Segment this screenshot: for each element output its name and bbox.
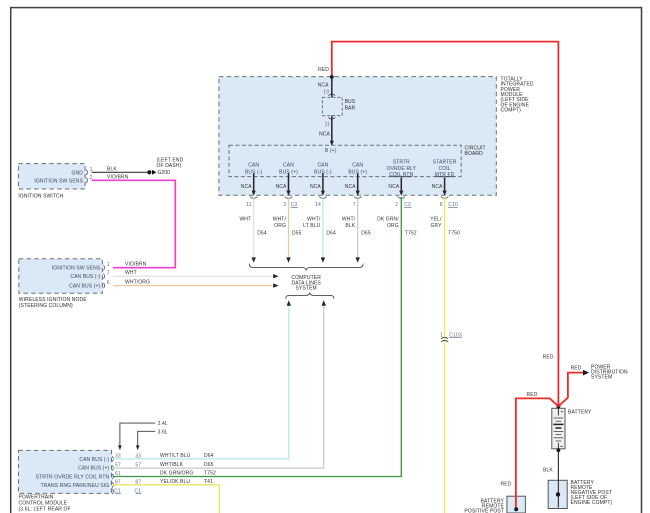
node: POWER DISTRIBUTION SYSTEM <box>591 364 628 380</box>
svg-text:YEL/DK BLU: YEL/DK BLU <box>160 479 190 485</box>
PCM name label <box>19 494 71 512</box>
svg-text:NCA: NCA <box>276 184 287 190</box>
wire DK GRN/ORG T752 labels at PCM <box>160 471 216 477</box>
svg-text:(3.6L: LEFT REAR OF: (3.6L: LEFT REAR OF <box>19 506 71 512</box>
svg-text:IGNITION SWITCH: IGNITION SWITCH <box>18 194 63 200</box>
TIPM pin STARTER COIL MTR FD col6 <box>432 159 458 208</box>
svg-text:WHT/ORG: WHT/ORG <box>125 280 150 286</box>
wire WHT/ORG WIN CAN BUS (+) to computer data lines <box>113 280 279 288</box>
wire WHT WIN CAN BUS (-) to computer data lines <box>113 270 279 278</box>
svg-text:YEL/: YEL/ <box>430 216 442 222</box>
svg-text:11: 11 <box>246 202 252 208</box>
brace: computer data lines (wires from TIPM) <box>249 264 363 271</box>
2.4L pin pointer <box>118 421 168 450</box>
svg-text:GRY: GRY <box>430 223 442 229</box>
svg-text:WHT: WHT <box>125 270 137 276</box>
svg-text:COIL: COIL <box>439 166 451 172</box>
svg-text:T41: T41 <box>204 479 213 485</box>
svg-text:BOARD: BOARD <box>465 151 484 157</box>
svg-text:SYSTEM: SYSTEM <box>591 375 612 381</box>
wire WHT/LT BLU D64 PCM pin33 to computer data lines <box>113 300 291 459</box>
ground G200 (left end of dash) <box>147 157 183 176</box>
wire NCA from junction to bus bar pin 19 <box>318 77 336 97</box>
svg-text:BAR: BAR <box>345 105 356 111</box>
TIPM pin CAN BUS (-) col1 <box>241 163 263 209</box>
svg-text:DK GRN/ORG: DK GRN/ORG <box>160 471 193 477</box>
svg-text:STARTER: STARTER <box>433 159 457 165</box>
connector C103 on YEL/GRY wire <box>440 332 462 342</box>
PCM pin numbers <box>114 453 141 494</box>
svg-text:NCA: NCA <box>432 184 443 190</box>
module U1 TIPM (Totally Integrated Power Module) <box>219 77 496 196</box>
svg-text:CAN BUS (-): CAN BUS (-) <box>79 457 109 463</box>
svg-text:CAN BUS (+): CAN BUS (+) <box>69 283 100 289</box>
svg-text:NCA: NCA <box>310 184 321 190</box>
TIPM pin CAN BUS (+) col4 <box>345 163 368 209</box>
svg-text:POSITIVE POST: POSITIVE POST <box>464 509 504 513</box>
svg-text:B (+): B (+) <box>325 148 337 154</box>
wire DK GRN/ORG T752 (TIPM pin 2 to PCM pin 61) <box>113 197 417 477</box>
wire BLK ignition switch pin1 to ground <box>92 167 148 173</box>
wire WHT/BLK D65 PCM pin57 to computer data lines <box>113 300 326 468</box>
svg-text:BATTERY: BATTERY <box>568 409 592 415</box>
svg-text:ENGINE COMPT): ENGINE COMPT) <box>571 500 613 506</box>
wire BLK battery negative to remote negative post <box>543 448 560 507</box>
svg-text:MTR FD: MTR FD <box>435 172 455 178</box>
svg-text:ORG: ORG <box>387 223 399 229</box>
svg-text:CAN: CAN <box>352 163 363 169</box>
svg-text:NCA: NCA <box>241 184 252 190</box>
svg-text:WHT/: WHT/ <box>342 216 356 222</box>
svg-text:OF DASH): OF DASH) <box>157 163 182 169</box>
svg-text:D54: D54 <box>257 230 267 236</box>
svg-text:G200: G200 <box>158 170 171 176</box>
svg-text:WHT/BLK: WHT/BLK <box>160 462 184 468</box>
module PCM powertrain control module <box>19 450 114 494</box>
wire WHT/BLK D65 (TIPM pin 7 down) <box>342 197 371 263</box>
svg-text:NCA: NCA <box>388 184 399 190</box>
svg-text:COMPT): COMPT) <box>501 108 522 114</box>
svg-text:RED: RED <box>500 482 511 488</box>
svg-text:IGNITION SW SENS: IGNITION SW SENS <box>34 179 83 185</box>
svg-text:3.6L: 3.6L <box>158 429 168 435</box>
bus bar <box>322 97 355 115</box>
circuit board (inside TIPM) <box>229 145 461 176</box>
svg-text:D65: D65 <box>361 230 371 236</box>
svg-text:WHT: WHT <box>239 216 251 222</box>
battery remote positive post <box>464 496 525 513</box>
svg-text:8: 8 <box>440 202 443 208</box>
battery remote negative post <box>548 480 612 509</box>
svg-text:WHT/: WHT/ <box>307 216 321 222</box>
svg-text:(STEERING COLUMN): (STEERING COLUMN) <box>19 303 73 309</box>
svg-text:RED: RED <box>318 67 329 73</box>
3.6L pin pointer <box>136 429 168 450</box>
wire YEL/GRY T750 (TIPM pin 8 down off page) <box>430 197 460 513</box>
svg-text:BUS: BUS <box>345 99 356 105</box>
svg-text:STRTR: STRTR <box>393 159 410 165</box>
TIPM pin CAN BUS (-) col3 <box>310 163 332 209</box>
svg-text:7: 7 <box>353 202 356 208</box>
circuit board label <box>465 146 486 157</box>
svg-text:6: 6 <box>107 280 110 286</box>
wire YEL/DK BLU T41 PCM pin87 down off page <box>113 479 219 513</box>
svg-text:T752: T752 <box>405 230 417 236</box>
svg-text:BLK: BLK <box>345 223 355 229</box>
svg-text:3: 3 <box>283 202 286 208</box>
wire WHT/ORG D55 (TIPM pin 3 down) <box>273 197 302 263</box>
svg-text:CAN BUS (-): CAN BUS (-) <box>70 274 100 280</box>
wire RED battery feed (TIPM B+ to battery) <box>318 42 558 406</box>
svg-text:D64: D64 <box>326 230 336 236</box>
svg-text:D64: D64 <box>204 453 214 459</box>
svg-text:RED: RED <box>571 365 582 371</box>
svg-text:IGNITION SW SENS: IGNITION SW SENS <box>52 266 101 272</box>
svg-text:BLK: BLK <box>107 167 117 173</box>
WIN name label <box>19 297 87 309</box>
svg-text:2: 2 <box>395 202 398 208</box>
TIPM pin CAN BUS (+) col2 <box>276 163 299 209</box>
TIPM pin STRTR OVRDE RLY COIL RTN col5 <box>386 159 416 208</box>
wire RED battery to remote positive post <box>500 392 558 511</box>
svg-text:CAN: CAN <box>248 163 259 169</box>
svg-text:D55: D55 <box>292 230 302 236</box>
svg-text:CAN BUS (+): CAN BUS (+) <box>78 466 109 472</box>
battery B1 <box>552 408 592 449</box>
svg-text:T750: T750 <box>448 230 460 236</box>
brace: computer data lines (wires from PCM) <box>286 293 334 299</box>
svg-text:TRANS RNG PARK/NEU SIG: TRANS RNG PARK/NEU SIG <box>41 483 110 489</box>
svg-text:VIO/BRN: VIO/BRN <box>107 175 129 181</box>
svg-text:NCA: NCA <box>345 184 356 190</box>
svg-text:DK GRN/: DK GRN/ <box>377 216 399 222</box>
svg-text:1: 1 <box>107 262 110 268</box>
junction dot at battery positive <box>556 404 560 408</box>
svg-text:VIO/BRN: VIO/BRN <box>125 262 147 268</box>
TIPM name label <box>501 76 534 113</box>
svg-text:CAN: CAN <box>317 163 328 169</box>
svg-text:+: + <box>560 410 563 416</box>
svg-text:61: 61 <box>115 471 121 477</box>
svg-text:BLK: BLK <box>543 467 553 473</box>
svg-text:RED: RED <box>527 392 538 398</box>
svg-text:11: 11 <box>325 121 331 127</box>
svg-text:RED: RED <box>543 354 554 360</box>
svg-text:LT BLU: LT BLU <box>303 223 320 229</box>
svg-text:WHT/: WHT/ <box>273 216 287 222</box>
node: COMPUTER DATA LINES SYSTEM <box>291 275 321 291</box>
svg-text:14: 14 <box>315 202 321 208</box>
svg-text:GND: GND <box>72 170 84 176</box>
svg-text:NCA: NCA <box>318 82 329 88</box>
svg-text:1: 1 <box>440 332 443 338</box>
module WIN wireless ignition node <box>19 259 110 294</box>
svg-text:19: 19 <box>323 89 329 95</box>
wire VIO/BRN ignition switch pin2 to WIN pin5 <box>92 175 176 268</box>
svg-text:2.4L: 2.4L <box>158 421 168 427</box>
svg-text:WHT/LT BLU: WHT/LT BLU <box>160 453 191 459</box>
svg-text:CAN: CAN <box>283 163 294 169</box>
junction at TIPM B(+) input <box>330 75 334 79</box>
svg-text:COIL RTN: COIL RTN <box>389 172 413 178</box>
svg-text:D65: D65 <box>204 462 214 468</box>
svg-text:T752: T752 <box>204 471 216 477</box>
svg-text:SYSTEM: SYSTEM <box>296 286 317 292</box>
svg-text:NCA: NCA <box>319 131 330 137</box>
wire WHT/LT BLU D64 (TIPM pin 14 down) <box>303 197 336 263</box>
svg-text:STRTR OVRDE RLY COIL RTN: STRTR OVRDE RLY COIL RTN <box>36 474 110 480</box>
wire NCA bus bar pin 11 to circuit board B(+) <box>319 116 337 155</box>
module ignition switch <box>18 164 92 189</box>
svg-text:7: 7 <box>107 271 110 277</box>
wire WHT D54 (TIPM pin 11 down) <box>239 197 266 263</box>
svg-text:OVRDE RLY: OVRDE RLY <box>386 166 416 172</box>
svg-text:ORG: ORG <box>274 223 286 229</box>
wire RED battery to power distribution system <box>558 365 589 406</box>
